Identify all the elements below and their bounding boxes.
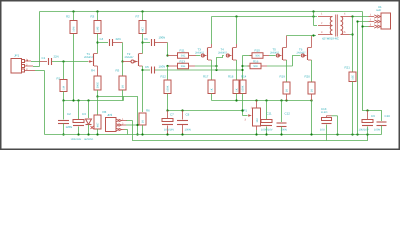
node gnd-C7 bbox=[166, 133, 168, 135]
node gnd-C13 bbox=[336, 133, 338, 135]
svg-text:2N5457: 2N5457 bbox=[84, 56, 94, 59]
capacitor C6 bbox=[151, 39, 153, 46]
wire R11 right bbox=[189, 55, 197, 57]
node gnd-C8 bbox=[181, 133, 183, 135]
wire R12 bottom bbox=[167, 94, 169, 111]
gate contact T6 bbox=[301, 54, 304, 57]
transistor T4 bbox=[232, 48, 234, 61]
capacitor C2 bbox=[58, 120, 69, 122]
resistor R15 bbox=[252, 53, 263, 59]
wire T5 drain up bbox=[286, 36, 288, 48]
gate contact T5 bbox=[276, 54, 279, 57]
svg-text:C9: C9 bbox=[371, 114, 375, 118]
svg-text:10U: 10U bbox=[320, 129, 325, 132]
wire input bias drop bbox=[39, 12, 41, 67]
wire C11 bottom bbox=[266, 127, 268, 135]
capacitor C7 bbox=[162, 119, 173, 122]
node gnd-X2 bbox=[356, 133, 358, 135]
svg-text:C1: C1 bbox=[42, 56, 46, 60]
svg-text:BZX9V1: BZX9V1 bbox=[85, 138, 95, 141]
wire T6 source bbox=[311, 60, 313, 82]
resistor R17 bbox=[208, 80, 215, 94]
node gnd-C2b bbox=[62, 133, 64, 135]
node sec top bbox=[351, 15, 353, 17]
wire R7 to T2 drain bbox=[142, 34, 144, 54]
svg-text:100U/16V: 100U/16V bbox=[71, 138, 82, 141]
node filter-C8 bbox=[181, 109, 183, 111]
wire C10 bottom bbox=[381, 126, 383, 135]
connector JP1 bbox=[11, 59, 22, 74]
capacitor C10 bbox=[377, 121, 387, 123]
wire R5 bottom bbox=[122, 90, 124, 101]
wire ground line 2 bbox=[133, 121, 368, 141]
wire T6 gate jog bbox=[293, 56, 301, 67]
wire T4 drain up bbox=[236, 44, 238, 48]
border frame bbox=[1, 1, 400, 150]
svg-text:2N5457: 2N5457 bbox=[270, 51, 280, 54]
resistor R2 bbox=[70, 21, 77, 34]
resistor R16 bbox=[250, 63, 261, 69]
node gnd-R8 bbox=[96, 133, 98, 135]
wire R1 bottom bbox=[63, 92, 65, 101]
wire D1 top bbox=[88, 101, 90, 119]
node bus-R2 bbox=[72, 10, 74, 12]
svg-text:390E: 390E bbox=[97, 82, 100, 88]
node gnd-D1 bbox=[87, 133, 89, 135]
transistor T1 bbox=[93, 54, 95, 67]
svg-text:100N: 100N bbox=[159, 36, 166, 40]
resistor R11 bbox=[178, 53, 189, 59]
wire R1 top bbox=[63, 62, 65, 80]
node gnd-C12 bbox=[280, 133, 282, 135]
svg-text:10U/16V: 10U/16V bbox=[164, 129, 174, 132]
svg-text:C8: C8 bbox=[186, 113, 190, 117]
node C5 out jog bbox=[215, 69, 217, 71]
wire C3 bottom bbox=[78, 127, 80, 135]
wire R16 right bbox=[261, 65, 267, 67]
wire X1 pin2 drop bbox=[358, 22, 369, 135]
svg-text:4K7: 4K7 bbox=[97, 122, 100, 127]
resistor R7 bbox=[139, 21, 146, 34]
wire sec top to X1 bbox=[352, 16, 369, 18]
wire R8 top bbox=[97, 97, 99, 116]
gate contact T4 bbox=[226, 54, 229, 57]
wire ground jog bbox=[124, 97, 138, 135]
resistor R4 bbox=[94, 76, 101, 90]
wire R11 left bbox=[168, 55, 178, 57]
svg-text:1M: 1M bbox=[63, 86, 66, 90]
node div2-b bbox=[241, 69, 243, 71]
connector X1 bbox=[381, 13, 391, 29]
svg-text:R19: R19 bbox=[280, 75, 286, 79]
svg-text:R7: R7 bbox=[136, 15, 140, 19]
wire P1 bottom bbox=[256, 126, 258, 130]
wire R7 drop bbox=[142, 12, 144, 21]
wire filter rail bbox=[168, 110, 243, 112]
wire source rail bbox=[98, 96, 124, 98]
wire C13 bottom bbox=[326, 125, 328, 141]
wire JP2 pin1 route bbox=[127, 120, 133, 122]
svg-text:2N5457: 2N5457 bbox=[297, 51, 307, 54]
potentiometer P1 bbox=[253, 108, 261, 126]
resistor R5 bbox=[119, 76, 126, 90]
wire C3 top bbox=[78, 101, 80, 120]
node R13 out bbox=[215, 65, 217, 67]
node R2-rail bbox=[72, 99, 74, 101]
wire T4 gate jog bbox=[217, 56, 224, 71]
wire pin2 to bus bbox=[33, 66, 40, 68]
svg-text:R18: R18 bbox=[228, 75, 234, 79]
wire V+ bus 2 bbox=[212, 16, 318, 18]
gate contact T3 bbox=[201, 54, 204, 57]
svg-text:C5: C5 bbox=[145, 65, 149, 69]
svg-text:1M5: 1M5 bbox=[97, 26, 100, 32]
svg-text:1K: 1K bbox=[236, 88, 239, 91]
wire R3 drop bbox=[97, 12, 99, 21]
pin 1 JP1 bbox=[25, 60, 32, 62]
svg-text:JP1: JP1 bbox=[14, 54, 20, 58]
svg-text:R5: R5 bbox=[116, 69, 120, 73]
wire C6 to divider bbox=[155, 42, 168, 44]
svg-text:100K: 100K bbox=[242, 85, 245, 91]
wire R15 right bbox=[263, 55, 269, 57]
svg-text:10E: 10E bbox=[352, 75, 355, 80]
resistor R18 bbox=[233, 80, 240, 94]
svg-text:42TM019-RC: 42TM019-RC bbox=[322, 37, 339, 41]
svg-text:R2: R2 bbox=[66, 15, 70, 19]
wire T5 source bbox=[286, 60, 288, 82]
wire R15 left bbox=[243, 55, 253, 57]
pin 2 X1 bbox=[374, 20, 377, 23]
wire R13 left bbox=[168, 65, 178, 67]
svg-text:2N5457: 2N5457 bbox=[195, 51, 205, 54]
svg-text:10U/16V: 10U/16V bbox=[359, 129, 369, 132]
node R1-rail bbox=[62, 99, 64, 101]
svg-text:R17: R17 bbox=[203, 75, 209, 79]
svg-text:150N: 150N bbox=[159, 65, 166, 69]
node jog-rail bbox=[136, 133, 138, 135]
svg-text:2N5457: 2N5457 bbox=[125, 56, 135, 59]
svg-text:R8: R8 bbox=[103, 110, 107, 114]
pin 3 X1 bbox=[374, 25, 377, 28]
svg-text:R3: R3 bbox=[91, 15, 95, 19]
capacitor C12 bbox=[277, 122, 287, 124]
wire C2 top bbox=[63, 101, 65, 120]
wire divider drop bbox=[167, 66, 169, 80]
node divider top bbox=[166, 54, 168, 56]
node bus2-T4 bbox=[235, 15, 237, 17]
svg-text:4K7: 4K7 bbox=[142, 27, 145, 32]
resistor R19 bbox=[283, 82, 290, 94]
wire R4 to node bbox=[97, 90, 99, 97]
wire sec top drop bbox=[352, 17, 354, 73]
node gnd-R21 bbox=[351, 133, 353, 135]
capacitor C9 bbox=[362, 120, 373, 123]
svg-text:C7: C7 bbox=[170, 113, 174, 117]
wire X1 pin3 drop bbox=[363, 26, 369, 28]
wire C5 out bbox=[155, 69, 243, 71]
svg-text:R4: R4 bbox=[91, 69, 95, 73]
pin 2 JP2 bbox=[116, 124, 122, 127]
wire R6 bottom bbox=[142, 125, 144, 135]
wire pin3 to ground drop bbox=[35, 70, 45, 72]
svg-text:R15: R15 bbox=[255, 49, 261, 53]
svg-text:JP2: JP2 bbox=[107, 113, 113, 117]
svg-text:22N: 22N bbox=[116, 37, 121, 41]
svg-text:1K: 1K bbox=[142, 120, 145, 123]
wire source rail mid bbox=[212, 100, 312, 102]
capacitor C1 bbox=[48, 58, 50, 65]
node gnd-C3 bbox=[77, 133, 79, 135]
wire divider2 feed bbox=[242, 56, 244, 81]
wire C8 bottom bbox=[182, 125, 184, 135]
svg-text:C11: C11 bbox=[267, 112, 272, 116]
node D1-rail bbox=[87, 99, 89, 101]
pin 3 JP2 bbox=[116, 128, 122, 131]
wire drain line bbox=[287, 35, 317, 37]
wire T2 source bbox=[142, 66, 144, 112]
wire C7 bottom bbox=[167, 126, 169, 135]
connector JP2 bbox=[106, 118, 117, 132]
svg-text:ELKO: ELKO bbox=[321, 111, 328, 114]
node gnd-C9 bbox=[366, 133, 368, 135]
svg-text:C2: C2 bbox=[67, 112, 71, 116]
svg-text:100N: 100N bbox=[185, 129, 191, 132]
node gnd-R20 bbox=[310, 133, 312, 135]
svg-text:R11: R11 bbox=[180, 49, 185, 53]
node gnd-C11 bbox=[265, 133, 267, 135]
wire JP2 pin2 route bbox=[126, 124, 138, 126]
pin 2 JP1 bbox=[25, 65, 34, 67]
svg-text:AMP: AMP bbox=[376, 9, 382, 12]
wire R19 bottom bbox=[286, 94, 288, 101]
node divider mid bbox=[166, 65, 168, 67]
wire T1 drain to C4 bbox=[98, 42, 109, 44]
wire R21 bottom bbox=[352, 82, 354, 135]
wire C12 bottom bbox=[281, 127, 283, 135]
capacitor C8 bbox=[177, 120, 188, 122]
svg-text:1K: 1K bbox=[311, 89, 314, 92]
node rail-C11 bbox=[265, 99, 267, 101]
wiper arrow P1 bbox=[242, 111, 244, 116]
wire R16 left bbox=[243, 65, 251, 67]
node T1 source rail bbox=[96, 95, 98, 97]
wire V+ bus bbox=[40, 11, 363, 13]
node rail-T4 bbox=[235, 99, 237, 101]
svg-text:1K: 1K bbox=[286, 89, 289, 92]
wire D1 bottom bbox=[88, 125, 90, 135]
diode D1 bbox=[86, 119, 92, 125]
capacitor C4 bbox=[109, 39, 111, 46]
svg-text:C10: C10 bbox=[385, 114, 391, 118]
svg-text:C3: C3 bbox=[82, 112, 86, 116]
svg-text:100U/16V: 100U/16V bbox=[261, 129, 273, 132]
wire C12 top bbox=[281, 101, 283, 123]
wire C13 top bbox=[326, 116, 328, 118]
node drain line tap bbox=[312, 34, 314, 36]
svg-text:R21: R21 bbox=[345, 66, 351, 70]
svg-text:100K: 100K bbox=[167, 85, 170, 91]
wire ground rail bottom bbox=[45, 134, 382, 136]
resistor R20 bbox=[308, 82, 315, 94]
wire R5 top bbox=[122, 62, 124, 77]
node bus-tap bbox=[312, 10, 314, 12]
svg-text:R6: R6 bbox=[146, 109, 150, 113]
node div2-a bbox=[241, 65, 243, 67]
wire C9 bottom bbox=[367, 127, 369, 135]
node rail-C12 bbox=[280, 99, 282, 101]
svg-text:10K: 10K bbox=[256, 118, 259, 123]
resistor R13 bbox=[178, 63, 189, 69]
wire JP1 to C1 bbox=[31, 61, 40, 63]
svg-text:2N5457: 2N5457 bbox=[218, 51, 228, 54]
svg-text:56E: 56E bbox=[181, 55, 186, 58]
svg-text:C4: C4 bbox=[100, 37, 104, 41]
capacitor C11 bbox=[261, 120, 272, 123]
transistor T5 bbox=[282, 48, 284, 61]
node bus-R7 bbox=[141, 10, 143, 12]
node bus2 tap bbox=[312, 15, 314, 17]
svg-text:1K: 1K bbox=[211, 88, 214, 91]
resistor R6 bbox=[139, 113, 146, 125]
svg-text:10M: 10M bbox=[73, 27, 76, 32]
node rail-T6 bbox=[310, 99, 312, 101]
svg-text:100N: 100N bbox=[374, 129, 380, 132]
resistor R12 bbox=[164, 80, 171, 94]
svg-text:100N: 100N bbox=[281, 129, 287, 132]
transistor T3 bbox=[207, 48, 209, 61]
wire C8 top bbox=[182, 111, 184, 120]
wire C11 top bbox=[266, 101, 268, 120]
node sec bottom bbox=[351, 33, 353, 35]
node gnd-P1 bbox=[255, 133, 257, 135]
capacitor C5 bbox=[151, 67, 153, 74]
wire R14 bottom bbox=[242, 94, 244, 111]
svg-text:C6: C6 bbox=[144, 37, 148, 41]
transistor T6 bbox=[307, 48, 309, 61]
node filter-R14 bbox=[241, 109, 243, 111]
svg-text:1K: 1K bbox=[122, 85, 125, 88]
wire C7 top bbox=[167, 111, 169, 119]
wire C2 bottom bbox=[63, 124, 65, 135]
resistor R8 bbox=[94, 115, 101, 129]
svg-text:120N: 120N bbox=[66, 125, 73, 129]
wire T1 source bbox=[97, 66, 99, 76]
wire C9 top bbox=[367, 111, 369, 120]
node pin3 node bbox=[361, 25, 363, 27]
svg-text:R14: R14 bbox=[241, 75, 247, 79]
wire T4 source bbox=[236, 60, 238, 80]
capacitor C13 bbox=[322, 118, 332, 121]
pin 1 X1 bbox=[374, 15, 377, 18]
wire T3 drain up bbox=[211, 44, 213, 48]
svg-text:56E: 56E bbox=[181, 65, 186, 68]
node rail-P1 bbox=[255, 99, 257, 101]
node bus-R3 bbox=[96, 10, 98, 12]
gate contact T2 bbox=[131, 60, 134, 63]
wire R3 to T1 drain bbox=[97, 34, 99, 54]
wire sec bottom bbox=[350, 34, 353, 36]
wire R8 bottom bbox=[97, 129, 99, 135]
pin 3 JP1 bbox=[25, 70, 36, 72]
wire R2 drop bbox=[73, 12, 75, 21]
wire T6 drain up bbox=[311, 36, 313, 48]
pin 1 JP2 bbox=[116, 119, 122, 122]
svg-text:R12: R12 bbox=[161, 75, 167, 79]
node C2-rail bbox=[77, 99, 79, 101]
transformer TR1 bbox=[330, 17, 332, 35]
svg-text:50K: 50K bbox=[253, 65, 258, 68]
svg-text:P1: P1 bbox=[244, 109, 248, 113]
node wiper bbox=[241, 109, 243, 111]
wire C5 tap bbox=[141, 69, 143, 71]
svg-text:C12: C12 bbox=[285, 112, 291, 116]
resistor R1 bbox=[60, 80, 67, 92]
node rail-T5 bbox=[285, 99, 287, 101]
transistor T2 bbox=[138, 54, 140, 67]
svg-text:R20: R20 bbox=[305, 75, 311, 79]
capacitor C3 bbox=[73, 120, 84, 123]
wire C1 to T1 gate bbox=[52, 61, 88, 63]
wire R17 bottom bbox=[211, 94, 213, 101]
wire T2 drain to C6 bbox=[143, 42, 151, 44]
resistor R3 bbox=[94, 21, 101, 34]
resistor R14 bbox=[239, 80, 246, 94]
wire ground rail left bbox=[64, 100, 124, 102]
node gate-R1 bbox=[62, 60, 64, 62]
svg-text:22N: 22N bbox=[54, 55, 59, 59]
node C9 tap bbox=[366, 109, 368, 111]
resistor R21 bbox=[349, 72, 356, 82]
wire C4 to T2 gate bbox=[113, 42, 123, 44]
node T2 gate bbox=[121, 60, 123, 62]
wire R20 bottom bbox=[311, 94, 313, 101]
wire P1 top bbox=[256, 101, 258, 109]
node gnd-R6 bbox=[141, 133, 143, 135]
wire T3 source bbox=[211, 60, 213, 80]
wire T2 gate lead bbox=[123, 61, 132, 63]
wire bus tap drop bbox=[313, 12, 315, 26]
wire R13 right bbox=[189, 65, 196, 67]
svg-text:50K: 50K bbox=[255, 55, 260, 58]
node filter-C7 bbox=[166, 109, 168, 111]
wire R18 bottom bbox=[236, 94, 238, 101]
